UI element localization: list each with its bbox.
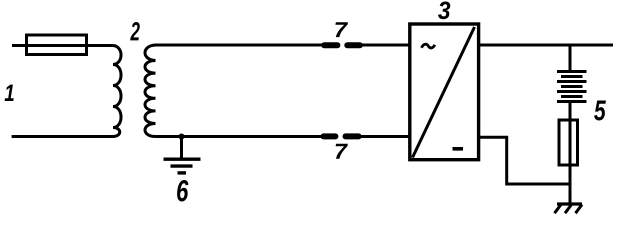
wire N input bottom bbox=[12, 135, 113, 138]
label 7 top bbox=[335, 22, 348, 37]
wire connector to converter bottom bbox=[360, 135, 411, 138]
battery 5 plates bbox=[557, 70, 587, 73]
node junction dot (secondary bottom / ground 6 tap) bbox=[179, 134, 185, 140]
fuse 5 body bbox=[559, 120, 578, 165]
fuse 5 lead through bbox=[569, 103, 572, 203]
transformer 2 secondary winding bbox=[145, 45, 156, 137]
label 2 bbox=[130, 22, 140, 40]
label 3 bbox=[438, 2, 450, 20]
transformer 2 primary winding bbox=[113, 46, 121, 137]
label 6 bbox=[177, 180, 188, 202]
converter 3 diagonal bbox=[413, 27, 475, 158]
label 5 bbox=[594, 101, 606, 121]
wire converter 3 output bottom return bbox=[479, 137, 571, 184]
fuse 1 bbox=[27, 35, 87, 55]
wire secondary bottom bbox=[156, 135, 323, 138]
chassis ground hatches bbox=[555, 205, 562, 214]
connector 7 (bottom wire) dashes bbox=[324, 133, 336, 139]
chassis ground bar bbox=[557, 202, 582, 205]
wire L input top bbox=[12, 44, 113, 47]
label 7 bottom bbox=[336, 144, 348, 159]
earth ground 6 bars bbox=[164, 157, 201, 160]
connector 7 (top wire) dashes bbox=[324, 42, 337, 48]
converter 3 box bbox=[410, 24, 479, 160]
converter 3 DC minus symbol bbox=[453, 147, 464, 151]
wire secondary top to connector bbox=[156, 44, 324, 47]
converter 3 AC tilde symbol bbox=[422, 44, 435, 48]
battery 5 lead top bbox=[569, 45, 572, 70]
wire connector to converter bbox=[361, 44, 410, 47]
earth ground 6 lead bbox=[180, 137, 183, 159]
label 1 bbox=[5, 85, 14, 101]
wire converter 3 output top bbox=[479, 44, 614, 47]
